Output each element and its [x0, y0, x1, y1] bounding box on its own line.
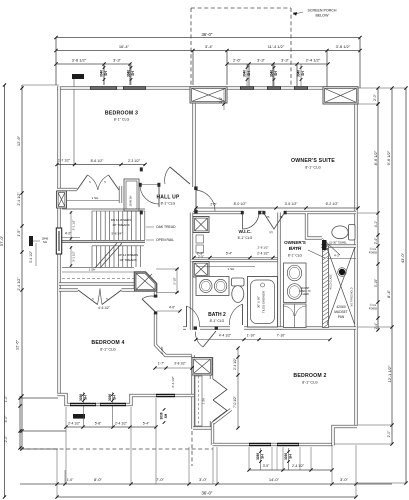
- svg-text:NO THRESHOLD: NO THRESHOLD: [351, 287, 354, 306]
- dimension line right inner x378: [377, 88, 379, 330]
- svg-text:3'-0": 3'-0": [199, 477, 208, 482]
- svg-text:4'-1": 4'-1": [374, 220, 378, 227]
- header box linen lower: [193, 262, 209, 278]
- chase pentagon with X: [135, 272, 157, 291]
- left wall window label 2846 SH: [29, 236, 33, 246]
- door bath2 west: [186, 306, 188, 327]
- right horizontal connectors: [358, 87, 406, 89]
- svg-text:8'-1" CLG: 8'-1" CLG: [161, 202, 176, 206]
- stair lower flight treads: [91, 246, 93, 267]
- window hall south: [156, 394, 175, 397]
- exterior marker top-left: [72, 74, 84, 79]
- svg-text:1'-5": 1'-5": [17, 229, 21, 237]
- svg-text:5'-4": 5'-4": [226, 252, 232, 256]
- dimension line 36-0 overall top: [56, 37, 360, 39]
- svg-text:2'-4 1/2": 2'-4 1/2": [306, 58, 321, 63]
- svg-text:2'-4 1/2": 2'-4 1/2": [68, 422, 81, 426]
- svg-text:8'-0": 8'-0": [94, 477, 103, 482]
- door hall to WIC passage: [195, 190, 197, 211]
- owners bath vanity: [284, 263, 307, 303]
- svg-text:3'-3": 3'-3": [113, 58, 122, 63]
- svg-text:4'-0": 4'-0": [169, 306, 175, 310]
- bedroom4 closet double doors: [59, 288, 78, 291]
- wall hall chase: [124, 179, 139, 211]
- stair break lines: [95, 243, 117, 268]
- dimension line top row3 right: [227, 63, 328, 65]
- svg-text:SH: SH: [84, 395, 88, 400]
- svg-text:SH: SH: [247, 71, 251, 76]
- svg-text:3'-6 1/2": 3'-6 1/2": [336, 44, 351, 49]
- svg-text:2'-4 1/2": 2'-4 1/2": [115, 422, 128, 426]
- bedroom2 window dim line: [249, 469, 332, 471]
- svg-text:(2) 30" TOWEL: (2) 30" TOWEL: [329, 241, 347, 245]
- svg-text:3'-4 1/2": 3'-4 1/2": [29, 250, 33, 263]
- wall bedroom2 chamfer: [212, 410, 231, 425]
- door bedroom3 entry: [170, 167, 190, 184]
- svg-text:3'-1 1/2": 3'-1 1/2": [72, 220, 76, 231]
- svg-text:3040: 3040: [269, 70, 273, 77]
- svg-text:3036: 3036: [284, 453, 288, 460]
- svg-text:OPEN RAIL: OPEN RAIL: [156, 238, 174, 242]
- svg-text:3'-1 1/2": 3'-1 1/2": [72, 251, 76, 262]
- svg-text:1'-10": 1'-10": [247, 334, 256, 338]
- bottom overall dim line 36-0: [57, 496, 356, 498]
- dimension line top row3 left: [56, 63, 130, 65]
- svg-text:3'-6 1/2": 3'-6 1/2": [72, 58, 87, 63]
- svg-text:2'-4 1/2": 2'-4 1/2": [233, 358, 237, 370]
- wall WIC south: [192, 259, 279, 262]
- shower mudset pan: [327, 248, 355, 324]
- wall bedroom2 closet south: [193, 426, 212, 429]
- header box left wall window: [57, 191, 67, 208]
- svg-text:TILED SHOWER: TILED SHOWER: [262, 291, 266, 313]
- svg-text:CLEAR: CLEAR: [301, 293, 309, 296]
- svg-text:BATH: BATH: [289, 246, 302, 251]
- owners sink a: [287, 265, 301, 281]
- wall bedroom2 west lower: [211, 423, 214, 445]
- svg-text:8'-1" CLG: 8'-1" CLG: [305, 166, 321, 170]
- svg-text:2'-3 1/2": 2'-3 1/2": [128, 159, 141, 163]
- svg-text:OAK TREAD: OAK TREAD: [156, 225, 176, 229]
- dim WIC row y208: [196, 207, 358, 209]
- svg-text:2'-5": 2'-5": [210, 203, 216, 207]
- understair closet shelf: [62, 271, 134, 273]
- dimension line right outer 43-0: [405, 88, 407, 483]
- screen porch dashed outline: [190, 8, 192, 85]
- svg-text:12'-9": 12'-9": [16, 135, 21, 146]
- svg-text:3'-10": 3'-10": [374, 278, 378, 287]
- dim WIC south row: [194, 257, 278, 259]
- svg-text:1'-0": 1'-0": [67, 478, 75, 482]
- svg-text:2'-4": 2'-4": [374, 322, 378, 329]
- door bedroom2 entry: [203, 331, 216, 347]
- svg-text:SH: SH: [301, 71, 305, 76]
- svg-text:6'-2 1/2": 6'-2 1/2": [326, 202, 340, 206]
- svg-text:8'-1" CLG: 8'-1" CLG: [288, 254, 303, 258]
- header box linen upper: [193, 217, 209, 233]
- svg-text:7'-0 1/2": 7'-0 1/2": [233, 396, 237, 408]
- svg-text:2'-0": 2'-0": [373, 93, 377, 101]
- svg-text:2'-4": 2'-4": [374, 237, 378, 244]
- wall bedroom3 south: [57, 188, 77, 191]
- svg-text:12'-6": 12'-6": [15, 339, 20, 350]
- wall toilet room owners: [307, 213, 323, 238]
- svg-text:2'-4 1/2": 2'-4 1/2": [292, 464, 305, 468]
- svg-text:8'-1" CLG: 8'-1" CLG: [302, 381, 318, 385]
- svg-text:8'-1" CLG: 8'-1" CLG: [210, 319, 225, 323]
- bottom extension lines: [56, 449, 58, 497]
- wall shower glass west: [323, 246, 329, 328]
- door jambs hall door: [139, 183, 142, 187]
- svg-text:SH: SH: [164, 413, 168, 418]
- svg-text:HALL UP: HALL UP: [157, 195, 180, 201]
- owners sink b: [287, 284, 301, 300]
- svg-text:SH: SH: [113, 395, 117, 400]
- svg-text:SHELF TO: SHELF TO: [299, 291, 310, 293]
- svg-text:ADJUST: ADJUST: [301, 287, 311, 290]
- svg-text:3040: 3040: [126, 70, 130, 77]
- wall hall-WIC west: [190, 213, 193, 331]
- window label 3036 SH bedroom4 b: [112, 392, 114, 427]
- bath2 sink b: [214, 279, 226, 292]
- svg-text:8'-1" CLG: 8'-1" CLG: [238, 236, 253, 240]
- header box top wall right: [323, 87, 358, 104]
- svg-text:1'-7": 1'-7": [158, 362, 164, 366]
- svg-text:2'-4 1/2": 2'-4 1/2": [171, 376, 175, 387]
- svg-text:3040: 3040: [296, 70, 300, 77]
- svg-text:SCREEN PORCH: SCREEN PORCH: [308, 9, 337, 13]
- svg-text:8'-0 1/2": 8'-0 1/2": [234, 202, 248, 206]
- bottom main dim line: [20, 483, 392, 485]
- svg-text:PAN: PAN: [338, 315, 345, 319]
- svg-text:3'-8 1/2": 3'-8 1/2": [174, 362, 186, 366]
- wall bedroom2 south: [213, 443, 334, 446]
- svg-text:14'-0": 14'-0": [269, 477, 280, 482]
- bedroom3 closet double doors: [77, 175, 88, 190]
- leader into shower: [308, 250, 325, 258]
- svg-text:3'-0": 3'-0": [340, 477, 349, 482]
- svg-text:36'-0": 36'-0": [202, 491, 213, 496]
- shower door mark: [322, 240, 327, 250]
- wall vestibule west - bedroom4 east: [154, 284, 157, 297]
- svg-text:2'-0": 2'-0": [219, 97, 223, 103]
- wall bedroom2 notch: [333, 427, 357, 446]
- svg-text:8'-4": 8'-4": [386, 289, 391, 298]
- svg-text:5'-4": 5'-4": [143, 422, 150, 426]
- svg-text:SH: SH: [289, 454, 293, 459]
- svg-text:10" TREADS: 10" TREADS: [112, 223, 129, 227]
- door jambs bedroom2 entry: [194, 326, 197, 329]
- bedroom2 closet shelf: [195, 376, 202, 426]
- svg-text:BEDROOM 2: BEDROOM 2: [293, 373, 326, 379]
- door jambs WIC passage: [194, 186, 197, 190]
- svg-text:4'-4 1/2": 4'-4 1/2": [219, 334, 232, 338]
- svg-text:8'-6 1/2": 8'-6 1/2": [91, 159, 105, 163]
- wall exterior top: [57, 86, 358, 89]
- wall bedroom4 north closet: [59, 282, 134, 285]
- window label 3040 SH bedroom3 b: [130, 64, 132, 85]
- svg-text:2'-6": 2'-6": [233, 58, 242, 63]
- dim hall row y164: [57, 164, 145, 166]
- bath2 sink a: [200, 279, 212, 292]
- svg-text:4'-2": 4'-2": [65, 232, 71, 236]
- svg-text:9'-6 1/2": 9'-6 1/2": [386, 150, 391, 165]
- svg-text:3'-10": 3'-10": [173, 277, 177, 285]
- door jambs WIC arc door: [241, 211, 244, 214]
- bedroom4 window dim line: [66, 426, 156, 428]
- svg-text:W.I.C.: W.I.C.: [238, 229, 251, 235]
- door WIC entry arc: [243, 213, 260, 230]
- window label 3040 SH owners a: [246, 64, 248, 86]
- svg-text:10" TREADS: 10" TREADS: [119, 258, 136, 262]
- svg-text:BATH 2: BATH 2: [208, 312, 226, 318]
- wall bath2 south: [183, 326, 186, 329]
- wall bedroom4 south-west step: [58, 395, 195, 405]
- door owners WC opening: [322, 238, 330, 246]
- dim bedroom4 door row: [157, 310, 180, 312]
- owners bath cabinet: [284, 304, 307, 328]
- wall shower top: [321, 244, 356, 247]
- wall bedroom3 closet shelf: [63, 200, 119, 202]
- svg-text:42X60: 42X60: [336, 305, 345, 309]
- porch dashed lines bottom: [20, 448, 213, 450]
- door jambs chase wall ends: [140, 167, 143, 171]
- svg-text:11'-4 1/2": 11'-4 1/2": [268, 44, 285, 49]
- window bedroom3 top b: [123, 86, 146, 89]
- wall owners suite south - WIC north: [193, 211, 243, 214]
- stair upper flight treads: [62, 208, 145, 210]
- stair middle rail: [62, 240, 145, 242]
- svg-text:3036: 3036: [256, 453, 260, 460]
- svg-text:HELD GLASS: HELD GLASS: [330, 274, 333, 289]
- bath2 tub shower: [248, 277, 278, 328]
- svg-text:MUDSET: MUDSET: [334, 310, 348, 314]
- door jambs owners bath door: [262, 211, 265, 214]
- svg-text:1 SH: 1 SH: [89, 268, 96, 272]
- dimension line right mid x392: [391, 88, 393, 444]
- stair dim 3-1: [70, 211, 72, 240]
- svg-text:43'-0": 43'-0": [400, 252, 405, 263]
- svg-text:3'-3": 3'-3": [281, 58, 290, 63]
- wall bedroom3 east: [192, 88, 195, 187]
- svg-text:5'-8": 5'-8": [95, 422, 102, 426]
- svg-text:BEDROOM 3: BEDROOM 3: [105, 111, 138, 117]
- svg-text:5'-0": 5'-0": [4, 415, 8, 423]
- svg-text:3036: 3036: [108, 394, 112, 401]
- svg-text:36'-0": 36'-0": [202, 32, 213, 37]
- svg-text:DN 16 RISERS: DN 16 RISERS: [111, 218, 132, 222]
- dim bedroom2 closet vertical: [237, 348, 239, 428]
- svg-text:2'-0": 2'-0": [4, 435, 8, 443]
- svg-text:1 SH: 1 SH: [202, 398, 206, 404]
- dimension line top row2: [56, 50, 360, 52]
- header box top wall left: [190, 87, 227, 103]
- wall bedroom3 closet east: [119, 186, 122, 203]
- svg-text:2'-3": 2'-3": [197, 252, 203, 256]
- svg-text:3'-4": 3'-4": [205, 44, 214, 49]
- svg-text:1'-7 1/2": 1'-7 1/2": [58, 159, 71, 163]
- window bedroom3 top a: [90, 86, 117, 89]
- svg-text:7'-10": 7'-10": [277, 334, 286, 338]
- door bath2 east: [242, 304, 244, 325]
- svg-text:1 SH: 1 SH: [92, 196, 99, 200]
- wall bedroom2 closet west: [191, 355, 194, 429]
- window label 3040 SH owners b: [273, 64, 275, 86]
- window label 3040 SH owners c: [300, 64, 302, 86]
- door owners bath double: [264, 214, 284, 230]
- svg-text:SH: SH: [131, 71, 135, 76]
- window label 3036 SH bedroom4 a: [83, 392, 85, 427]
- svg-text:57'-0": 57'-0": [0, 235, 4, 246]
- svg-text:BELOW: BELOW: [316, 14, 330, 18]
- WIC shelf: [196, 266, 255, 268]
- left horizontal connectors: [22, 84, 59, 86]
- svg-text:26 W SH: 26 W SH: [129, 196, 133, 207]
- svg-text:UP 14 RISERS: UP 14 RISERS: [118, 253, 138, 257]
- header box bedroom2 closet: [192, 358, 212, 376]
- svg-text:8'-1" CLG: 8'-1" CLG: [114, 118, 130, 122]
- door hall up arc: [140, 184, 159, 186]
- svg-text:2'-8 1/2": 2'-8 1/2": [258, 246, 269, 250]
- bath2 toilet: [232, 278, 245, 286]
- extension lines top: [55, 38, 57, 86]
- svg-text:FIXED: FIXED: [369, 306, 377, 310]
- svg-text:SH: SH: [104, 71, 108, 76]
- svg-text:2'-0": 2'-0": [387, 430, 391, 438]
- window owners top a: [240, 86, 254, 89]
- wall exterior left: [57, 87, 60, 397]
- owners toilet: [349, 225, 356, 241]
- dimension line 57-0 far left: [4, 85, 6, 497]
- svg-text:3040: 3040: [242, 70, 246, 77]
- bedroom2 closet bifold doors: [213, 379, 227, 400]
- svg-text:SH: SH: [43, 240, 47, 244]
- window owners top c: [294, 86, 308, 89]
- svg-text:(2): (2): [269, 231, 272, 234]
- dim bedroom2 top row: [196, 339, 330, 341]
- svg-text:30" X 60": 30" X 60": [257, 296, 261, 308]
- svg-text:2'-10": 2'-10": [160, 346, 164, 354]
- svg-text:8'-6 1/2": 8'-6 1/2": [373, 150, 378, 165]
- svg-text:FIXED: FIXED: [369, 250, 377, 254]
- window label 3036 SH bedroom2 b: [288, 448, 290, 470]
- dimension line left inner: [21, 85, 23, 449]
- shower niche line: [327, 258, 356, 260]
- wall bedroom2 closet east: [210, 357, 213, 379]
- svg-text:OWNER'S SUITE: OWNER'S SUITE: [291, 158, 335, 164]
- svg-text:1'-0": 1'-0": [4, 395, 8, 403]
- svg-text:SH: SH: [261, 454, 265, 459]
- svg-text:5'-8 3/4": 5'-8 3/4": [112, 232, 123, 236]
- svg-text:3036: 3036: [79, 394, 83, 401]
- svg-text:3036: 3036: [159, 412, 163, 419]
- dim vestibule row: [155, 367, 192, 369]
- svg-text:16'-4": 16'-4": [119, 44, 130, 49]
- svg-text:3040: 3040: [99, 70, 103, 77]
- svg-text:3'-5 1/2": 3'-5 1/2": [285, 202, 299, 206]
- svg-text:OWNER'S: OWNER'S: [284, 240, 306, 245]
- exterior marker bottom-left: [73, 414, 85, 419]
- bath2 vanity counter: [196, 277, 229, 296]
- window bedroom4 south a: [70, 403, 96, 406]
- window label 3040 SH bedroom3 a: [103, 64, 105, 85]
- svg-text:3'-3": 3'-3": [257, 58, 266, 63]
- svg-text:3'-9": 3'-9": [263, 464, 270, 468]
- svg-text:2'-4 1/2": 2'-4 1/2": [257, 252, 269, 256]
- svg-text:8'-1" CLG: 8'-1" CLG: [100, 348, 116, 352]
- svg-text:1 SH: 1 SH: [228, 267, 235, 271]
- svg-text:4'-6 1/2": 4'-6 1/2": [98, 306, 110, 310]
- window bedroom2 south a: [249, 443, 271, 446]
- door bedroom4 entry: [142, 299, 156, 312]
- svg-text:SH: SH: [274, 71, 278, 76]
- dim owners suite 2-0: [223, 88, 225, 110]
- window label 3036 SH bedroom2 a: [260, 448, 262, 470]
- window owners top b: [267, 86, 281, 89]
- window bedroom2 south b: [277, 443, 299, 446]
- svg-text:2'-4 1/2": 2'-4 1/2": [17, 277, 21, 291]
- svg-text:12'-1 1/2": 12'-1 1/2": [387, 365, 392, 382]
- svg-text:7'-0": 7'-0": [156, 477, 165, 482]
- dim pentagon right: [156, 268, 179, 270]
- svg-text:BEDROOM 4: BEDROOM 4: [91, 340, 124, 346]
- linen shelves: [196, 235, 204, 243]
- svg-text:2'-4 1/2": 2'-4 1/2": [17, 192, 21, 206]
- wall exterior right: [354, 88, 357, 426]
- wall WIC-bath divider: [277, 213, 280, 331]
- window left wall bedroom4: [56, 228, 61, 254]
- window bedroom4 south b: [100, 403, 126, 406]
- door jambs bedroom4 entry: [154, 295, 157, 298]
